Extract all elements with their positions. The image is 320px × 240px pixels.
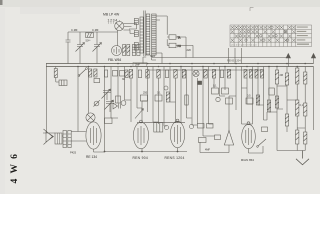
wire: aerial top line: [68, 31, 118, 36]
resistor R5: [146, 70, 149, 79]
svg-text:Netz: Netz: [150, 54, 156, 58]
trimmer capacitor C2: [76, 32, 85, 64]
svg-text:REN 904: REN 904: [133, 156, 148, 160]
svg-text:2MF: 2MF: [135, 64, 140, 67]
wire: drop x137: [136, 67, 138, 109]
wire: P1 connections: [213, 145, 229, 153]
table: bottom code row text: [231, 44, 258, 47]
capacitor C10: [116, 96, 121, 103]
resistor R31: [125, 70, 128, 78]
wire: drop x142: [141, 101, 143, 123]
resistor R6: [157, 70, 160, 79]
switch SW2: [78, 68, 87, 77]
resistor R27: [256, 95, 259, 105]
node junction dots on buses: [77, 63, 306, 153]
coil L1: [134, 19, 138, 51]
resistor R32: [54, 67, 59, 83]
capacitor C26: [113, 103, 121, 109]
resistor R26: [166, 92, 169, 102]
resistor R9: [204, 70, 207, 79]
transformer T1 secondary winding: [152, 14, 157, 55]
tube V2 output RE134: [86, 122, 101, 149]
node: junction circle left of V4: [189, 124, 193, 128]
wire: drop x147: [147, 67, 149, 113]
svg-text:RGN 354: RGN 354: [241, 158, 254, 162]
resistor R12: [244, 70, 247, 79]
wire: drop x219: [219, 67, 221, 97]
node: small junction circle: [121, 101, 126, 106]
tube V4 RENS1204: [170, 119, 184, 148]
resistor R2: [123, 45, 126, 56]
wire: anode rail x277: [276, 67, 278, 147]
capacitor C7 block: [59, 80, 67, 86]
resistor R13: [250, 70, 253, 79]
capacitor C21: [262, 127, 268, 132]
trimmer capacitor C8: [102, 89, 112, 100]
resistor R15: [261, 70, 264, 79]
resistor R30: [94, 69, 97, 77]
label: block C box: [133, 62, 147, 66]
table: right label column text: [297, 27, 309, 45]
label box value 0,1: [105, 118, 113, 124]
wire: drop x175: [175, 78, 177, 123]
capacitor C23: [113, 71, 118, 77]
capacitor C12: [212, 88, 219, 94]
node: grid cap V2 socket circle: [86, 113, 95, 122]
socket diagram S1: [115, 20, 124, 30]
capacitor C20: [215, 135, 221, 140]
resistor R11: [227, 70, 230, 79]
wire: grid line above tubes: [137, 122, 185, 124]
resistor R25: [155, 95, 162, 101]
svg-text:0,5: 0,5: [247, 95, 251, 98]
capacitor C27 solid block: [197, 81, 202, 85]
wire: screen rail x297: [296, 67, 298, 151]
wire: table drops: [229, 48, 242, 64]
wire: heater bus segment: [150, 69, 262, 71]
capacitor C6: [220, 70, 223, 78]
wire: grid cap lead V2: [88, 67, 90, 114]
resistor R16: [275, 70, 278, 84]
wire: right column links: [277, 86, 305, 128]
wire: T2 to V2 anode: [71, 132, 86, 142]
resistor R29: [89, 69, 92, 77]
capacitor block C16: [154, 123, 163, 133]
wire: drop x111: [110, 67, 112, 119]
resistor R21: [304, 103, 307, 116]
wire: jacks to mains line: [176, 37, 193, 58]
svg-text:C.MF: C.MF: [71, 28, 78, 32]
wire: drop x236: [235, 67, 237, 111]
wire: drop x153: [152, 67, 154, 123]
wire: lower supply bus: [46, 66, 314, 68]
wire: drop x104: [94, 67, 105, 153]
svg-text:50ºº: 50ºº: [86, 39, 91, 43]
wire: drop x247: [246, 78, 248, 98]
table: valve data chart frame: [230, 25, 312, 47]
resistor R8: [182, 70, 185, 79]
transformer T2 output secondary: [68, 131, 71, 148]
svg-text:0,1: 0,1: [157, 92, 161, 95]
svg-text:1234: 1234: [108, 19, 118, 23]
capacitor C13: [222, 88, 229, 94]
svg-text:0,1: 0,1: [213, 85, 217, 88]
wire: drop x229: [228, 96, 230, 131]
svg-text:RENS 1204: RENS 1204: [165, 156, 185, 160]
capacitor C22: [105, 70, 108, 77]
wire: drop x164: [163, 67, 165, 127]
wire: drop x131: [130, 78, 132, 122]
wire: speaker leads: [47, 133, 64, 136]
wire: screen rail x305: [304, 67, 306, 151]
svg-text:0,1: 0,1: [300, 104, 304, 107]
wire: left rail: [43, 64, 47, 134]
svg-text:MB LP 4W: MB LP 4W: [103, 13, 120, 17]
svg-text:a b c d e f g h i k l m n o p: a b c d e f g h i k l m n o p r: [231, 44, 258, 47]
wire: drop x225: [224, 67, 226, 91]
capacitor C24: [120, 71, 125, 77]
wire: V5 anode links: [242, 98, 253, 124]
svg-text:FBL W54: FBL W54: [108, 58, 121, 62]
wire: ground link: [277, 146, 305, 151]
transformer T2 output primary: [63, 131, 66, 148]
resistor R18: [296, 68, 299, 84]
wire: rectifier cathode: [249, 146, 264, 153]
resistor R23: [304, 132, 307, 144]
tube V5 rectifier: [242, 122, 256, 149]
switch SW1: [257, 139, 266, 147]
tube V1 detector: [112, 46, 122, 56]
node: mains arrow terminal: [286, 54, 290, 67]
wire: drop x241: [241, 67, 243, 125]
resistor R20: [296, 100, 299, 116]
wire: T1 secondary tap to jacks: [156, 16, 167, 35]
wire: drop x269: [268, 67, 270, 113]
coil L3: [132, 45, 135, 56]
capacitor C19: [199, 138, 207, 143]
svg-text:RE 134: RE 134: [86, 155, 97, 159]
resistor R1: [86, 33, 94, 38]
capacitor C17: [198, 124, 205, 129]
wire: band switch contacts: [123, 24, 136, 34]
label: jack TA: [178, 36, 181, 39]
wire: drop x203: [202, 67, 204, 137]
trimmer capacitor C9: [105, 100, 115, 112]
coil L4: [137, 45, 140, 56]
wire: drop x263: [263, 67, 265, 121]
coil L2: [140, 17, 143, 53]
speaker LS: [44, 129, 63, 145]
capacitor C11: [185, 95, 188, 105]
wire: speaker feed rail: [77, 67, 79, 132]
node: var cap circle a: [94, 100, 100, 106]
wire: drop x118: [117, 67, 119, 97]
resistor R34: [275, 96, 278, 108]
resistor R7: [174, 70, 177, 79]
resistor R14: [255, 70, 258, 79]
svg-text:RENS 1204: RENS 1204: [227, 59, 241, 63]
node: mark above table: [250, 8, 254, 12]
svg-text:4 W 6: 4 W 6: [10, 153, 20, 184]
label: jack PU: [178, 45, 182, 48]
transformer T1 primary winding: [146, 14, 150, 55]
wire: drop x181: [180, 67, 182, 123]
node: aerial arrow terminal right: [311, 54, 315, 64]
svg-text:C.MF: C.MF: [92, 28, 99, 32]
wire: drop x197: [197, 78, 199, 124]
capacitor C28: [269, 88, 275, 95]
node: junction circle AVC: [216, 97, 220, 101]
capacitor C25: [94, 78, 100, 82]
trimmer capacitor C3: [93, 32, 102, 64]
wire: drop x158: [158, 78, 160, 124]
transformer T1 core: [144, 11, 145, 57]
resistor R19: [304, 72, 307, 84]
wire: drop x186: [186, 70, 188, 118]
jack TA: [167, 35, 176, 40]
wire: mains line: [152, 57, 288, 59]
resistor R17: [285, 73, 288, 85]
resistor R22: [296, 130, 299, 144]
tube V3 REN904: [133, 120, 148, 149]
svg-text:220: 220: [187, 48, 192, 52]
wire: drop x214: [213, 78, 215, 88]
dial lamp LP: [193, 70, 199, 76]
wire: T1 bottom taps: [143, 53, 162, 64]
wire: drop x258: [257, 67, 259, 106]
potentiometer arrow P2: [135, 109, 144, 119]
wire: bottom link mid: [142, 148, 187, 152]
resistor R10: [212, 70, 215, 79]
table: cross marks: [231, 26, 295, 42]
ground symbol: [296, 151, 309, 165]
wire: aerial to valve top: [117, 32, 119, 46]
wire: bottom link left: [105, 149, 143, 152]
capacitor C14: [226, 98, 233, 104]
resistor R4: [129, 70, 132, 79]
wire: upper supply bus: [46, 63, 314, 65]
node: junction circle above bus mid: [164, 86, 168, 90]
capacitor C4: [138, 70, 141, 78]
wire: bottom cluster right: [200, 142, 213, 153]
node: junction circle between V3 V4: [164, 125, 168, 129]
potentiometer P1 triangle: [224, 131, 233, 146]
resistor R28: [267, 100, 270, 112]
wire: drop x208: [208, 67, 210, 125]
wire: mid links: [111, 88, 297, 136]
wire: right rail x313: [313, 67, 315, 131]
resistor R3: [127, 45, 130, 56]
resistor R24: [140, 95, 147, 101]
wire: anode rail x287: [286, 67, 288, 101]
svg-text:P425: P425: [70, 151, 77, 155]
resistor R33: [285, 100, 288, 132]
wire: drop x124: [124, 67, 126, 101]
socket pin ticks: [109, 22, 117, 23]
wire: drop x170: [169, 67, 171, 103]
svg-text:250: 250: [143, 92, 148, 95]
jack PU: [167, 39, 176, 47]
capacitor C15: [246, 98, 253, 104]
capacitor C18: [207, 124, 214, 129]
svg-text:2M: 2M: [280, 74, 283, 77]
capacitor C1: [66, 36, 71, 64]
wire: drop x252: [252, 67, 254, 125]
wire: drop x192: [191, 67, 193, 126]
svg-text:4MF: 4MF: [205, 149, 210, 152]
capacitor C5: [165, 70, 168, 78]
